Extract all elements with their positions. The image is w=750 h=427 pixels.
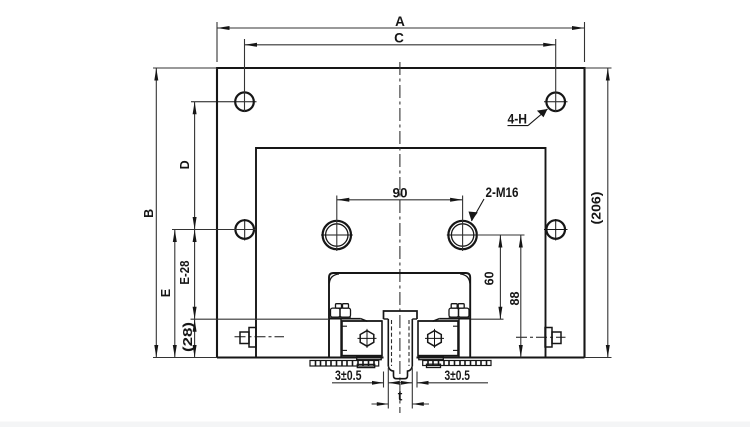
rail web: [388, 319, 412, 366]
svg-text:(206): (206): [590, 192, 604, 225]
svg-text:t: t: [398, 389, 403, 404]
dimension t: [372, 368, 430, 409]
svg-text:2-M16: 2-M16: [486, 185, 519, 200]
right jaw hex socket: [425, 329, 444, 348]
dimension 3±0.5 right: [417, 372, 488, 388]
right jaw block: [418, 321, 458, 356]
dimension A: [217, 22, 585, 62]
left serrated strip: [310, 361, 379, 368]
hole H3 lower-left: [235, 219, 254, 241]
dimension 3±0.5 left: [332, 372, 384, 388]
left jaw block: [342, 321, 382, 356]
left jaw bottom bar: [357, 356, 382, 360]
left side bolt on cutout edge: [235, 328, 285, 348]
left jaw top plate: [329, 319, 382, 358]
right serrated strip: [423, 361, 491, 368]
rail head: [384, 311, 418, 319]
dimension (206): [585, 68, 612, 358]
svg-text:A: A: [395, 14, 405, 29]
svg-text:3±0.5: 3±0.5: [445, 368, 471, 383]
svg-text:60: 60: [483, 271, 497, 285]
inner cutout rectangle: [256, 148, 546, 358]
clearance arrows between web lines: [388, 382, 412, 384]
dimension E-28: [194, 230, 196, 320]
rail foot: [388, 366, 412, 379]
bottom gray band: [0, 422, 750, 427]
svg-text:(28): (28): [181, 322, 195, 352]
svg-text:90: 90: [392, 186, 407, 201]
dimension C: [245, 39, 556, 112]
plate outline: [217, 68, 585, 358]
svg-text:B: B: [142, 209, 156, 218]
rail hidden lines: [392, 320, 410, 366]
right side bolt on cutout edge: [516, 328, 566, 348]
dimension E: [172, 230, 256, 358]
tapped hole M16 right: [447, 221, 477, 249]
dimension 90: [337, 196, 463, 252]
right bolt stack: [449, 304, 470, 318]
clamp housing (rounded top): [329, 273, 470, 358]
tapped hole M16 left: [321, 221, 353, 249]
svg-text:D: D: [178, 160, 192, 169]
right jaw bottom bar: [419, 356, 444, 360]
right jaw top plate: [418, 319, 470, 358]
dimension 88: [520, 235, 522, 358]
left bolt stack: [330, 304, 351, 318]
svg-text:4-H: 4-H: [508, 112, 528, 127]
svg-text:88: 88: [508, 292, 522, 306]
svg-text:E-28: E-28: [178, 261, 192, 285]
svg-text:C: C: [394, 31, 404, 46]
hole H1 top-left: [191, 92, 257, 111]
leader 2-M16: [472, 199, 485, 221]
dimension (28): [191, 319, 330, 357]
leader 4-H: [508, 109, 548, 126]
clamp housing inner corner arcs: [329, 274, 470, 284]
svg-text:3±0.5: 3±0.5: [335, 368, 362, 383]
dimension B: [153, 68, 217, 358]
hole H2 top-right: [544, 93, 568, 112]
left jaw hex socket: [358, 329, 377, 348]
centerline (vertical axis): [399, 62, 401, 413]
svg-text:E: E: [159, 289, 173, 297]
hole H4 lower-right: [544, 219, 568, 241]
dimension 60: [471, 235, 525, 319]
dimension D: [194, 102, 196, 230]
